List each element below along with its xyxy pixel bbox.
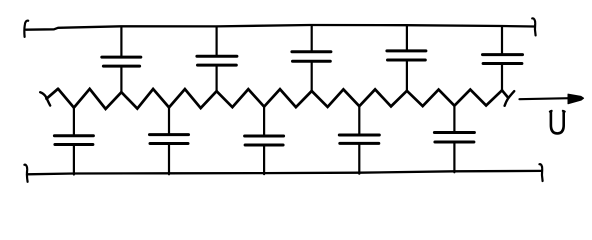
capacitor C7 (bottom) [150,107,189,174]
input terminal squiggle (left) [40,92,50,105]
capacitor C10 (bottom, rightmost) [434,106,474,173]
inductor L3 (zigzag section 3) [217,89,312,107]
capacitor C2 (top) [197,27,237,91]
capacitor C5 (top) [483,27,523,91]
capacitor C9 (bottom) [339,106,379,174]
inductor L1 (zigzag section 1) [58,89,121,109]
inductor L5 (zigzag section 5) [407,90,502,107]
capacitor C3 (top) [292,26,331,91]
capacitor C8 (bottom) [245,107,284,175]
top-right terminal [532,18,535,35]
wire: output stub [502,90,508,98]
inductor L2 (zigzag section 2) [121,89,216,109]
capacitor C1 (top, left plate pair) [102,27,141,92]
top rail wire [26,25,535,30]
inductor L4 (zigzag section 4) [312,89,407,107]
output terminal squiggle (right) [505,91,515,106]
bottom-left terminal [24,165,27,182]
wire: input stub [47,89,59,99]
bottom rail wire [27,171,542,174]
bottom-right terminal [539,164,542,181]
label U (output voltage) [550,111,565,133]
capacitor C4 (top) [387,26,426,91]
top-left terminal [24,21,28,37]
capacitor C6 (bottom, leftmost) [54,108,93,175]
arrow (output direction) [520,94,584,104]
